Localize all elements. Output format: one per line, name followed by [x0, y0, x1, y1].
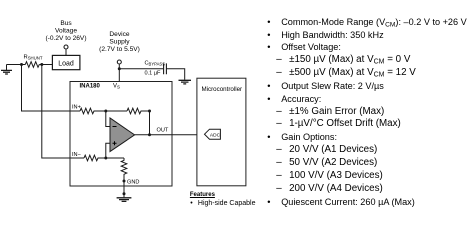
- node: shunt left junction: [20, 63, 23, 66]
- load box: [52, 55, 80, 69]
- wire Vs to bypass cap: [119, 68, 163, 70]
- svg-text:0.1 µF: 0.1 µF: [145, 70, 162, 76]
- resistor (IN+ input): [80, 108, 106, 114]
- resistor (feedback): [127, 108, 150, 114]
- node: feedback top junction: [148, 110, 151, 113]
- ground (bypass cap): [179, 80, 192, 84]
- wire Vs supply: [118, 64, 120, 82]
- device supply terminal: [117, 60, 121, 64]
- microcontroller box: [197, 78, 246, 186]
- svg-text:ADC: ADC: [210, 132, 221, 138]
- wire IN- sense (shunt right to INA180 IN-): [42, 65, 84, 159]
- svg-text:GND: GND: [127, 179, 139, 185]
- capacitor C_BYPASS: [145, 61, 167, 77]
- wire R_SHUNT to Load: [39, 64, 52, 66]
- svg-text:INA180: INA180: [80, 83, 101, 89]
- node: op-amp plus node: [104, 157, 107, 160]
- svg-text:(-0.2V to 26V): (-0.2V to 26V): [45, 35, 86, 42]
- resistor (to GND pin): [121, 158, 127, 197]
- resistor R_SHUNT: [24, 55, 43, 68]
- bullet High-side Capable: [190, 200, 255, 207]
- node: op-amp minus node: [104, 110, 107, 113]
- heading Features: [190, 192, 215, 198]
- node: shunt right junction: [40, 63, 43, 66]
- ground (left, shunt low side): [1, 65, 12, 75]
- wire minus node to op-amp inverting input: [106, 111, 110, 127]
- ADC input block: [205, 129, 221, 139]
- op-amp box U1 INA180: [70, 82, 172, 187]
- wire bus terminal to load: [65, 49, 67, 55]
- wire cap to ground: [166, 69, 184, 80]
- wire minus node to feedback resistor: [106, 110, 127, 112]
- svg-text:VS: VS: [113, 84, 120, 90]
- svg-text:(2.7V to 5.5V): (2.7V to 5.5V): [99, 46, 140, 53]
- node: output junction: [148, 133, 151, 136]
- svg-text:RSHUNT: RSHUNT: [24, 55, 43, 61]
- svg-text:Load: Load: [58, 60, 74, 67]
- feature list: [267, 16, 473, 209]
- wire feedback to output: [149, 111, 151, 135]
- svg-text:Microcontroller: Microcontroller: [202, 86, 243, 93]
- label: Bus Voltage: [45, 20, 86, 42]
- node: Vs junction: [118, 67, 121, 70]
- resistor (IN- input): [84, 155, 124, 161]
- node: GND pin: [123, 180, 126, 183]
- wire ground to R_SHUNT: [7, 64, 26, 66]
- svg-text:IN+: IN+: [72, 105, 81, 111]
- bus voltage terminal: [64, 45, 68, 49]
- label: Device Supply: [99, 31, 140, 53]
- wire IN+ sense (shunt left to INA180 IN+): [22, 65, 81, 112]
- svg-text:Supply: Supply: [109, 39, 130, 46]
- wire plus node to op-amp non-inverting input: [106, 143, 110, 158]
- ground (GND pin): [117, 198, 132, 202]
- svg-text:IN−: IN−: [72, 152, 81, 158]
- node: below GND pin: [123, 192, 126, 195]
- wire op-amp output to ADC: [135, 134, 205, 136]
- svg-text:Bus: Bus: [60, 20, 72, 27]
- svg-text:OUT: OUT: [157, 128, 169, 134]
- svg-text:CBYPASS: CBYPASS: [145, 61, 166, 67]
- svg-text:Device: Device: [109, 31, 129, 38]
- op-amp A1: [110, 118, 135, 152]
- svg-text:Voltage: Voltage: [55, 28, 77, 35]
